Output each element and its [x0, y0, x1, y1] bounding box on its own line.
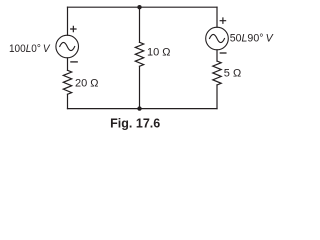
- wire left branch top (top bus to source E1): [67, 7, 69, 35]
- resistor R 5 ohm zigzag: [213, 61, 221, 85]
- wire resistor 10 ohm to bottom node: [139, 66, 141, 108]
- ac voltage source E1 100L0 V circle: [56, 35, 79, 58]
- wire top bus: [68, 6, 218, 8]
- svg-text:10 Ω: 10 Ω: [147, 47, 171, 59]
- polarity plus of E1: [71, 26, 76, 31]
- wire E1 bottom to resistor 20 ohm: [67, 58, 69, 70]
- wire E2 bottom to resistor 5 ohm: [216, 50, 218, 61]
- node junction dot bottom: [137, 106, 141, 110]
- ac voltage source E2 50L90 V circle: [206, 27, 229, 50]
- ac voltage source E2 sine symbol: [210, 34, 225, 42]
- wire resistor 20 ohm to bottom bus: [67, 94, 69, 108]
- svg-text:5 Ω: 5 Ω: [224, 67, 241, 79]
- resistor R 10 ohm zigzag: [135, 42, 143, 66]
- wire bottom bus: [68, 108, 218, 110]
- svg-text:20 Ω: 20 Ω: [75, 78, 99, 90]
- polarity plus of E2: [220, 18, 225, 23]
- polarity minus of E2: [220, 52, 226, 54]
- wire middle branch top (top node to resistor 10 ohm): [139, 7, 141, 42]
- wire right branch top (top bus to source E2): [216, 7, 218, 27]
- svg-text:100L0° V: 100L0° V: [9, 43, 51, 55]
- svg-text:Fig. 17.6: Fig. 17.6: [110, 117, 160, 131]
- node junction dot top: [137, 5, 141, 9]
- wire resistor 5 ohm to bottom bus: [216, 85, 218, 109]
- svg-text:50L90° V: 50L90° V: [230, 33, 275, 45]
- resistor R 20 ohm zigzag: [63, 70, 71, 94]
- ac voltage source E1 sine symbol: [60, 42, 75, 50]
- polarity minus of E1: [71, 61, 77, 63]
